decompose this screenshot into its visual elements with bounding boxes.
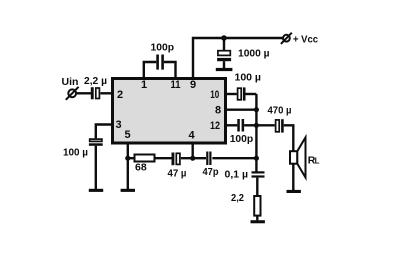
svg-text:+ Vcc: + Vcc (293, 34, 318, 46)
wire pin 9 to Vcc rail (193, 38, 283, 78)
capacitor 100p C6 (237, 119, 244, 132)
svg-text:1000 µ: 1000 µ (238, 48, 270, 60)
pin 1 (141, 79, 147, 91)
wire C6 to rail (244, 124, 256, 126)
wire pin 4 down (191, 143, 193, 158)
label 100µ left (63, 147, 88, 159)
label 2,2 (231, 192, 244, 204)
svg-text:10: 10 (210, 89, 219, 101)
resistor 2,2 R2 (254, 196, 260, 216)
ground under C9 (216, 68, 233, 71)
node rail/47p (254, 156, 259, 161)
wire speaker to ground (292, 164, 294, 190)
label 47p (203, 166, 219, 178)
pin 2 (117, 89, 123, 101)
wire pin 8 to rail (226, 108, 256, 110)
wire C10 to pin 11 (164, 62, 176, 78)
svg-text:Uin: Uin (62, 76, 79, 88)
svg-text:8: 8 (215, 105, 221, 117)
label + Vcc (293, 34, 318, 46)
wire pin 3 to C2 (96, 125, 112, 139)
capacitor 47µ C3 (172, 153, 180, 166)
node rail/pin12 (254, 123, 259, 128)
wire C1 to pin 2 (100, 92, 112, 94)
svg-text:5: 5 (124, 129, 130, 141)
label 100µ right (235, 71, 262, 83)
wire C7 to R2 (256, 178, 258, 196)
pin 4 (188, 130, 195, 142)
svg-text:0,1 µ: 0,1 µ (225, 168, 249, 180)
ground under speaker (287, 190, 301, 193)
capacitor 2,2µ C1 (91, 87, 100, 99)
label 470µ (268, 105, 292, 117)
node pin4 junction (190, 156, 195, 161)
svg-text:47 µ: 47 µ (168, 167, 187, 179)
label 1000µ (238, 48, 270, 60)
pin 3 (115, 119, 121, 131)
wire R1 to C3 (155, 157, 172, 159)
svg-text:L: L (315, 157, 320, 166)
wire C2 to ground (95, 146, 97, 189)
label 100p right (230, 133, 254, 145)
svg-text:100p: 100p (151, 42, 175, 54)
wire C5 to rail (246, 93, 257, 95)
wire R2 to ground (256, 216, 258, 221)
wire C9 to ground (223, 61, 225, 68)
wire input terminal to C1 (76, 92, 91, 94)
svg-text:100 µ: 100 µ (235, 71, 262, 83)
svg-text:4: 4 (188, 130, 195, 142)
svg-text:2,2: 2,2 (231, 192, 244, 204)
label RL (308, 155, 320, 167)
node pin5/R1 junction (125, 156, 130, 161)
wire rail vertical (255, 94, 257, 172)
wire pin 12 to C6 (226, 124, 237, 126)
pin 11 (171, 79, 181, 91)
wire C4 to rail node (212, 157, 256, 159)
svg-text:2,2 µ: 2,2 µ (84, 75, 107, 87)
wire pin 5 down (127, 143, 129, 189)
ground under pin 5 (121, 189, 135, 192)
label 100p top (151, 42, 175, 54)
op-amp IC U1 (113, 79, 226, 144)
label 47µ (168, 167, 187, 179)
ground under C2 (89, 189, 103, 192)
svg-text:100 µ: 100 µ (63, 147, 88, 159)
capacitor 100µ C2 (89, 139, 103, 146)
capacitor 100p C10 (156, 55, 164, 70)
label 0,1µ (225, 168, 249, 180)
resistor 68 R1 (135, 155, 155, 162)
pin 5 (124, 129, 130, 141)
svg-text:11: 11 (171, 79, 181, 91)
svg-text:47p: 47p (203, 166, 219, 178)
wire C8 to speaker (284, 125, 294, 151)
Vcc terminal (281, 33, 292, 44)
node rail/pin8 (254, 107, 259, 112)
capacitor 1000µ C9 (217, 51, 231, 62)
speaker RL (290, 137, 306, 177)
svg-text:9: 9 (190, 79, 196, 91)
wire C3 to pin4 node (181, 157, 193, 159)
pin 8 (215, 105, 221, 117)
capacitor 470µ C8 (276, 119, 284, 132)
svg-text:3: 3 (115, 119, 121, 131)
label Uin (62, 76, 79, 88)
pin 12 (210, 120, 220, 132)
svg-text:470 µ: 470 µ (268, 105, 292, 117)
wire node to C9 (223, 38, 225, 51)
capacitor 0,1µ C7 (252, 171, 265, 177)
capacitor 100µ C5 (238, 87, 246, 100)
label 2,2µ (84, 75, 107, 87)
svg-text:12: 12 (210, 120, 220, 132)
pin 9 (190, 79, 196, 91)
wire pin4 node to C4 (193, 157, 206, 159)
svg-text:68: 68 (135, 162, 147, 174)
ground under R2 (251, 220, 265, 223)
wire rail to C8 (256, 124, 274, 126)
wire pin 10 to C5 (226, 93, 237, 95)
label 68 (135, 162, 147, 174)
svg-text:100p: 100p (230, 133, 254, 145)
wire junction to R1 (128, 157, 135, 159)
input terminal Uin (66, 87, 79, 100)
pin 10 (210, 89, 219, 101)
capacitor 47p C4 (206, 152, 211, 166)
node Vcc/1000µ (221, 35, 227, 41)
wire pin 1 up to C10 (144, 62, 157, 78)
svg-text:2: 2 (117, 89, 123, 101)
svg-text:1: 1 (141, 79, 147, 91)
